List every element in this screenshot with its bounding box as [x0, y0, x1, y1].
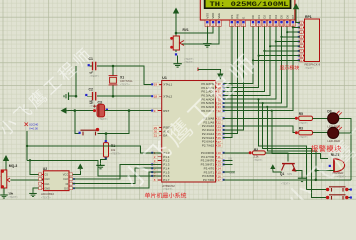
svg-text:P1.7: P1.7	[163, 178, 170, 182]
svg-text:<TEXT>: <TEXT>	[305, 66, 315, 70]
watermark bottom-right	[283, 74, 356, 213]
svg-text:D3: D3	[327, 109, 331, 113]
svg-text:D6: D6	[285, 15, 289, 19]
node markers U2	[73, 178, 75, 180]
svg-text:E: E	[242, 17, 246, 19]
ground (sideways, crystal caps)	[69, 95, 76, 97]
respack RP1 pins	[302, 22, 305, 24]
svg-text:D3: D3	[268, 15, 272, 19]
capacitor C3 (electrolytic)	[93, 109, 96, 112]
wire U2 CLK to P1.1	[73, 164, 162, 179]
svg-text:VEE: VEE	[217, 13, 221, 19]
svg-text:DI: DI	[66, 182, 69, 186]
label 单片机最小系统	[145, 193, 186, 199]
wire sensor wiper to U2 CH0	[11, 179, 43, 181]
wire R3 to LED D2	[313, 132, 328, 134]
svg-text:U1: U1	[162, 76, 167, 80]
lcd LM016L screen	[200, 0, 295, 20]
svg-text:DO: DO	[64, 186, 68, 190]
ground (Q1)	[298, 176, 306, 182]
svg-text:U2: U2	[43, 167, 47, 171]
wire U2 GND to ground	[33, 188, 39, 191]
svg-text:R3: R3	[299, 126, 303, 130]
svg-text:<TEXT>: <TEXT>	[254, 159, 264, 162]
wire LCD VSS to ground	[206, 27, 208, 42]
wire P2.2 to R3	[223, 126, 295, 133]
wire C1-C2 left vertical	[75, 66, 77, 96]
node RST junction	[128, 109, 131, 112]
svg-text:OB: OB	[228, 157, 232, 161]
svg-text:RW: RW	[236, 14, 240, 19]
svg-text:<TEXT>: <TEXT>	[184, 60, 194, 64]
wire probe vertical	[26, 131, 28, 160]
wire P0.4 branch to key column	[259, 99, 328, 189]
wire U2 DO to P1.3	[73, 172, 162, 188]
svg-text:LED-RED: LED-RED	[327, 139, 340, 143]
wire P3.0 to R2	[223, 152, 249, 154]
wire net to P1.0	[27, 146, 162, 153]
power VCC arrow (U2)	[73, 171, 81, 174]
wire buzzer to rail	[316, 170, 334, 172]
svg-text:<TEXT>: <TEXT>	[281, 183, 291, 186]
svg-text:RESPACK-8: RESPACK-8	[305, 62, 321, 66]
svg-text:10k: 10k	[111, 148, 116, 152]
svg-text:R2: R2	[254, 148, 258, 152]
mcu U1 AT89C52 body	[162, 81, 216, 183]
svg-text:D5: D5	[280, 15, 284, 19]
resistor R2	[249, 151, 252, 154]
svg-text:NPN: NPN	[287, 173, 292, 176]
power VCC pin40 wire and down-arrow	[197, 68, 199, 72]
svg-text:CS: CS	[44, 173, 48, 177]
svg-text:13: 13	[286, 23, 290, 27]
wire sensor to ground	[3, 188, 5, 193]
svg-text:10: 10	[269, 23, 273, 27]
wire LCD data columns down to P0 pins	[223, 27, 253, 84]
capacitor C2	[87, 95, 93, 97]
wire XTAL2 net	[97, 95, 158, 97]
wire P0.7 branch to buzzer pin	[272, 111, 328, 159]
svg-text:11: 11	[274, 23, 277, 27]
node button-R1 junction	[105, 132, 108, 135]
svg-text:XTAL1: XTAL1	[163, 83, 172, 87]
node crystal-top junction	[112, 65, 115, 68]
watermark large center	[120, 52, 259, 191]
power VCC arrow (RP1 pin1)	[293, 3, 299, 11]
svg-text:RS: RS	[230, 15, 234, 19]
svg-text:VSS: VSS	[205, 13, 209, 19]
wire LCD RS/RW/E down to P2	[223, 27, 244, 130]
resistor R1	[105, 134, 107, 143]
svg-text:D4: D4	[274, 15, 278, 19]
ground (below R1)	[96, 163, 104, 169]
svg-text:C2: C2	[89, 88, 93, 92]
wire VCC to RV1	[175, 15, 177, 36]
wire P3.7 long to buzzer rail	[223, 179, 351, 181]
svg-text:17: 17	[218, 178, 222, 182]
adc U2 ADC0832 body	[44, 171, 70, 191]
svg-text:CLK: CLK	[63, 177, 68, 181]
push button K3	[329, 187, 346, 192]
svg-text:P2.7/A15: P2.7/A15	[202, 144, 215, 148]
svg-text:VDD: VDD	[211, 13, 215, 19]
wire LCD VDD to VCC rail	[176, 27, 213, 33]
power arrow (Q1 emitter)	[270, 164, 275, 170]
svg-text:32: 32	[218, 109, 222, 113]
wire R5 to LED D3	[313, 117, 328, 119]
led D2	[328, 127, 339, 138]
power VCC arrow (reset, pointing left)	[61, 107, 69, 113]
wire P0.6 branch to buzzer rail	[267, 107, 316, 180]
probe label	[25, 123, 29, 127]
svg-text:<TEXT>: <TEXT>	[299, 136, 309, 139]
wire VCC to sensor	[5, 163, 7, 171]
wire U2 CS joins seg to P1.6	[30, 160, 39, 174]
svg-text:EA: EA	[163, 133, 167, 137]
wire P3.3 stub	[223, 163, 233, 165]
node markers right pins	[223, 83, 225, 85]
svg-text:ADC0832: ADC0832	[41, 192, 54, 196]
wire RP1 staircase from LCD data columns	[293, 26, 300, 28]
svg-text:Q1: Q1	[280, 172, 284, 176]
wire P3.5 stub	[223, 171, 235, 173]
ground (U2)	[29, 192, 37, 197]
label 报警模块	[311, 145, 341, 152]
push button K4	[329, 195, 346, 200]
svg-text:C3: C3	[98, 100, 102, 104]
mcu U1 left pins	[158, 83, 162, 85]
svg-text:R5: R5	[299, 112, 303, 116]
svg-text:D2: D2	[263, 15, 267, 19]
wire button branch	[75, 111, 80, 134]
svg-text:uF: uF	[90, 99, 94, 103]
power VCC arrow (RV1)	[173, 8, 179, 16]
svg-text:D7: D7	[291, 15, 295, 19]
svg-text:MQ-3: MQ-3	[9, 164, 18, 168]
capacitor C1	[90, 65, 93, 67]
svg-text:RP1: RP1	[305, 15, 312, 19]
svg-text:<TEXT>: <TEXT>	[8, 195, 18, 199]
led D3	[328, 113, 339, 124]
svg-text:V=0.00: V=0.00	[29, 127, 38, 131]
svg-text:RV1: RV1	[183, 28, 189, 32]
mcu U1 right pins	[216, 83, 220, 85]
svg-text:<TEXT>: <TEXT>	[41, 195, 51, 199]
push button (reset key)	[81, 130, 99, 135]
power VCC arrow (MQ-3)	[3, 155, 9, 163]
svg-text:<TEXT>: <TEXT>	[111, 151, 121, 155]
svg-text:<TEXT>: <TEXT>	[163, 187, 173, 191]
svg-text:<TEXT>: <TEXT>	[337, 175, 347, 178]
wire C3 to RST	[105, 110, 158, 112]
wire P3.2 stub	[223, 160, 233, 162]
ground (on U1 top)	[177, 56, 179, 62]
svg-text:GND: GND	[44, 186, 50, 190]
resistor R3	[295, 131, 298, 134]
ground (LCD VSS)	[203, 42, 211, 48]
transistor Q1	[282, 164, 296, 171]
svg-text:AT89C52: AT89C52	[162, 184, 175, 188]
svg-text:P3.7/RD: P3.7/RD	[203, 178, 215, 182]
gas sensor MQ-3 (pot)	[1, 170, 7, 188]
svg-text:CH0: CH0	[44, 177, 50, 181]
wire LCD VEE to pot wiper	[181, 27, 219, 44]
watermark bottom-left partial	[0, 142, 1, 163]
svg-text:<TEXT>: <TEXT>	[90, 74, 100, 78]
svg-text:<TEXT>: <TEXT>	[98, 117, 108, 121]
adc U2 pins	[41, 173, 44, 175]
node markers left pins	[151, 83, 153, 85]
wire R1 to ground	[101, 157, 107, 163]
wire R2 to Q1 base	[265, 153, 288, 162]
svg-text:D1: D1	[257, 15, 261, 19]
svg-text:28: 28	[218, 144, 222, 148]
potentiometer RV1	[173, 36, 179, 50]
svg-text:EOC: EOC	[230, 171, 236, 175]
svg-text:CH1: CH1	[44, 182, 50, 186]
svg-text:D0: D0	[251, 15, 255, 19]
svg-text:VCC: VCC	[63, 173, 69, 177]
svg-text:31: 31	[154, 134, 158, 138]
ground (MQ-3)	[0, 193, 8, 198]
wire Q1 to ground	[295, 171, 302, 177]
svg-text:<TEXT>: <TEXT>	[299, 122, 309, 125]
svg-text:12: 12	[280, 23, 284, 27]
wire VCC to C3	[68, 110, 94, 112]
svg-text:XTAL2: XTAL2	[163, 94, 172, 98]
svg-text:18: 18	[154, 95, 158, 99]
wire P2.0 to R5	[223, 117, 295, 119]
label 显示模块	[280, 65, 299, 70]
respack RP1 body	[305, 19, 320, 62]
crystal X1	[112, 66, 114, 75]
svg-text:<TEXT>: <TEXT>	[120, 82, 130, 86]
wire P0.5 branch to key column	[263, 103, 327, 197]
svg-text:RST: RST	[163, 109, 169, 113]
watermark small top-left	[0, 47, 93, 138]
wire LED cathodes common	[339, 118, 351, 180]
wire XTAL1 net	[97, 66, 158, 84]
node crystal-bottom junction	[112, 95, 115, 98]
svg-text:TH: 025MG/100ML: TH: 025MG/100ML	[210, 1, 289, 8]
wire U2 DI to P1.2	[73, 168, 162, 183]
svg-text:19: 19	[154, 83, 158, 87]
lcd pin number boxes	[205, 20, 210, 26]
resistor R5	[295, 117, 298, 120]
